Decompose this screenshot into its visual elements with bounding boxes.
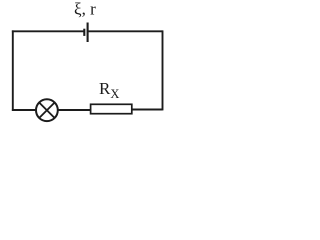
wire: top-left segment: [12, 30, 84, 32]
wire: left side: [12, 30, 14, 111]
battery cell: short plate (negative): [83, 29, 85, 36]
wire: bottom-left segment: [12, 109, 36, 111]
lamp L: circle with diagonal cross: [36, 99, 58, 121]
wire: lamp to resistor segment: [58, 109, 91, 111]
svg-text:ξ, r: ξ, r: [74, 0, 96, 19]
wire: right side: [162, 30, 164, 110]
resistor RX: rectangular box: [91, 104, 132, 113]
wire: top-right segment: [88, 30, 163, 32]
battery cell: tall plate (positive): [87, 23, 89, 43]
wire: bottom-right segment: [132, 109, 163, 111]
